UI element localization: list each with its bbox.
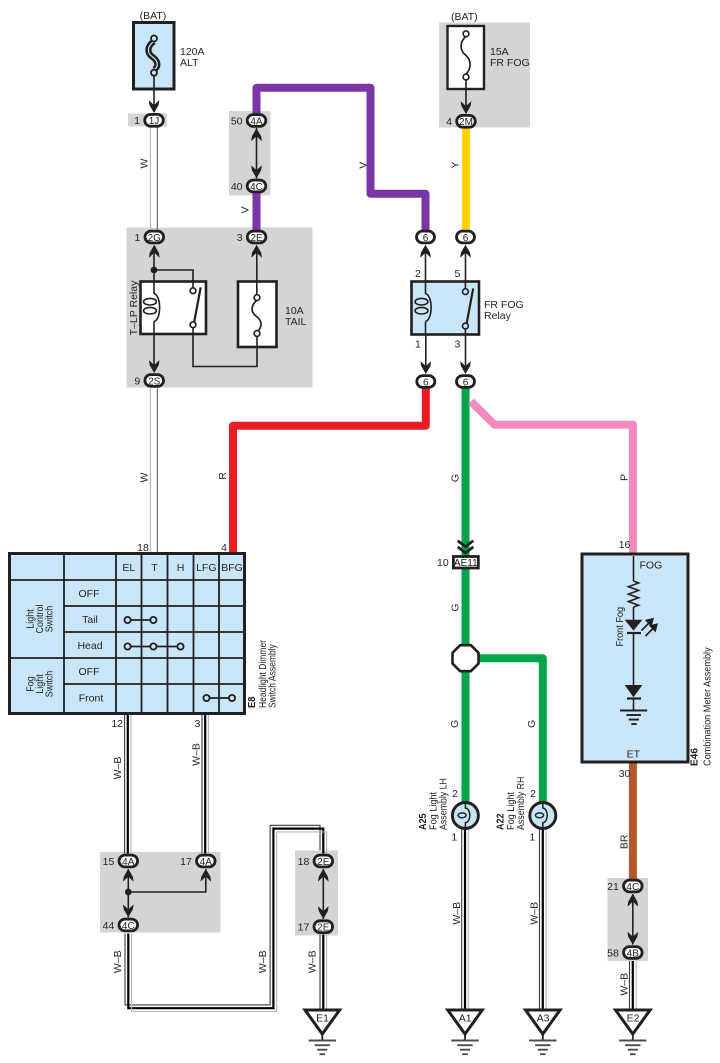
arrow into connector 6 (pin 1) [421,361,432,374]
svg-text:Assembly LH: Assembly LH [438,778,450,830]
arrow into 15-4A [123,869,134,882]
wire from 2E down to TAIL fuse top [256,250,258,297]
svg-text:3: 3 [454,339,460,351]
gray box behind 15A FR FOG fuse [439,23,530,128]
svg-text:5: 5 [454,268,460,280]
connector 9-2S [145,375,164,388]
ground A1 [448,1010,483,1054]
rotated label E46 Combination Meter Assembly [689,647,713,766]
svg-text:4C: 4C [626,882,639,893]
svg-text:30: 30 [619,768,631,780]
wire P (pink) from relay pin 3 connector to E46 pin 16 [471,402,633,555]
svg-text:10: 10 [437,557,449,569]
LED front fog indicator [625,620,643,631]
connector 50-4A [247,115,266,128]
T-LP relay [141,282,207,335]
arrow pair between 4A and 4C [256,128,258,179]
svg-text:E1: E1 [316,1013,329,1025]
svg-text:Front Fog: Front Fog [614,607,626,647]
svg-text:3: 3 [237,232,243,244]
svg-text:Switch Assembly: Switch Assembly [267,644,279,708]
arrow into 17-4A [201,869,212,882]
arrow into 17-2E [318,906,329,919]
svg-text:12: 12 [111,718,123,730]
wire from connector 6 down to FR FOG relay pin 2 [425,250,427,292]
arrow into connector 6 (pin 3) [460,361,471,374]
svg-text:4: 4 [446,116,452,128]
svg-text:T: T [151,562,158,574]
switch contacts Tail row [125,617,157,623]
arrow into 18-2E [318,869,329,882]
rotated label Light Control Switch [25,604,56,633]
gray box behind connectors 21-4C / 58-4B [608,878,649,961]
connector 10-AE11 [453,557,478,570]
gray box behind connectors 18-2E / 17-2E [295,851,338,936]
fog light assembly LH bulb [452,803,478,829]
svg-text:W–B: W–B [190,743,202,766]
svg-text:W–B: W–B [306,950,318,973]
svg-text:Y: Y [450,161,462,168]
switch contacts Front row [203,695,235,701]
connector 4-2M [457,115,476,128]
svg-text:R: R [217,472,229,480]
svg-text:(BAT): (BAT) [140,10,167,22]
wire [633,607,635,620]
svg-text:50: 50 [231,115,243,127]
wire from T-LP coil down to 2S [153,320,155,368]
svg-text:E8: E8 [246,696,258,708]
connector 44-4C [119,919,138,932]
svg-text:4C: 4C [122,921,135,932]
svg-text:FR FOG: FR FOG [490,57,530,69]
connector 17-4A [197,855,216,868]
svg-text:1: 1 [529,832,535,844]
svg-text:AE11: AE11 [454,558,478,569]
wire between 15-4A junction and 17-4A / 44-4C [127,869,129,917]
wire R (red) from relay pin 1 connector to E8 pin 4 [233,382,426,555]
svg-text:LFG: LFG [196,562,216,574]
wire W-B from E8 pin 3 down to 17-4A [202,714,208,854]
svg-text:G: G [450,474,462,482]
svg-text:OFF: OFF [79,666,100,678]
wire W-B from E8 pin 12 down to 15-4A [125,714,131,854]
wire V (violet) from 4C down to 2E [253,193,261,231]
svg-text:G: G [526,720,538,728]
svg-text:44: 44 [103,920,115,932]
junction node dot [151,267,158,274]
svg-text:4A: 4A [200,857,213,868]
rotated label E8 Headlight Dimmer Switch Assembly [246,639,278,708]
FR FOG relay [412,282,480,335]
svg-text:W: W [138,472,150,482]
svg-text:Front: Front [79,693,104,705]
gray box behind connectors 4A/4C (instrument panel junction) [229,111,271,196]
svg-text:6: 6 [463,377,469,388]
svg-text:FOG: FOG [640,560,663,572]
internal wire pin16 to resistor [633,556,635,581]
connector 18-2E [314,855,333,868]
arrow into 2S [149,360,160,373]
rotated label A25 Fog Light Assembly LH [417,778,450,830]
wire from FR FOG fuse to 2M [465,80,467,113]
svg-text:V: V [358,162,370,169]
connector 1-2G [145,231,164,244]
svg-text:2E: 2E [317,857,330,868]
connector 17-2E [314,921,333,934]
svg-text:ET: ET [627,748,641,760]
wire BR (brown) from E46 pin 30 down to 21-4C [629,762,637,880]
svg-text:4B: 4B [627,948,640,959]
svg-text:Assembly RH: Assembly RH [516,777,528,830]
svg-text:W–B: W–B [619,973,631,996]
svg-text:P: P [619,474,631,481]
svg-text:Combination Meter Assembly: Combination Meter Assembly [702,647,714,766]
svg-text:6: 6 [463,233,469,244]
svg-text:16: 16 [619,539,631,551]
svg-text:2: 2 [415,268,421,280]
E8 headlight dimmer switch assembly table [10,554,245,714]
wire W (white) from 2S down to E8 pin 18 [150,389,157,555]
svg-text:OFF: OFF [79,588,100,600]
wire from FR FOG relay pin 1 to connector 6 [425,318,427,369]
ground E2 [616,1010,651,1054]
svg-text:4A: 4A [122,857,135,868]
fuse 10A TAIL [238,282,277,348]
svg-text:17: 17 [180,856,192,868]
connector 58-4B [624,947,643,960]
svg-text:(BAT): (BAT) [451,11,478,23]
internal ground symbol [620,711,647,725]
svg-text:Relay: Relay [484,310,512,322]
svg-text:2: 2 [530,788,536,800]
svg-text:1: 1 [134,115,140,127]
svg-text:17: 17 [298,922,310,934]
svg-text:W–B: W–B [529,902,541,925]
svg-text:W: W [138,158,150,168]
connector 6 (green) [457,376,475,389]
svg-text:EL: EL [122,562,135,574]
svg-text:W–B: W–B [451,902,463,925]
connector 6 (red) [417,376,435,389]
arrow into 21-4C [628,894,639,907]
wire W (white) from 1J down to 2G [150,128,157,231]
svg-text:18: 18 [137,542,149,554]
svg-text:2M: 2M [459,117,473,128]
fuse 15A FR FOG [448,26,485,89]
svg-text:W–B: W–B [257,950,269,973]
octagon splice junction [453,645,479,671]
svg-text:BR: BR [619,834,631,849]
connector 3-2E [247,231,266,244]
rotated label Fog Light Switch [25,671,56,698]
svg-text:G: G [449,720,461,728]
wire from FR FOG relay pin 3 to connector 6 [465,328,467,369]
arrow into 44-4C [123,904,134,917]
svg-text:V: V [239,206,251,213]
wire Y (yellow) from 2M down to relay pin 5 connector [462,122,470,231]
svg-text:A3: A3 [537,1013,550,1025]
svg-text:21: 21 [607,881,619,893]
svg-text:40: 40 [231,181,243,193]
svg-text:Head: Head [77,640,102,652]
arrow into 1J [149,100,160,113]
E46 combination meter assembly [582,554,688,762]
svg-text:Switch: Switch [44,606,56,633]
svg-text:A1: A1 [459,1013,472,1025]
double chevron shield connector above AE11 [458,541,474,553]
wire from T-LP switch to TAIL fuse bottom [193,327,257,367]
connector 6 (violet) [417,231,435,244]
svg-text:H: H [177,562,185,574]
svg-text:TAIL: TAIL [285,316,307,328]
svg-text:6: 6 [423,377,429,388]
svg-text:2E: 2E [250,233,263,244]
svg-text:1: 1 [451,832,457,844]
arrow into 58-4B [628,932,639,945]
wire from ALT fuse to 1J [153,76,155,113]
svg-text:W–B: W–B [112,757,124,780]
svg-text:18: 18 [298,856,310,868]
ground A3 [526,1010,561,1054]
svg-text:9: 9 [134,375,140,387]
wire from 2G down to T-LP relay coil, junction at node [153,250,155,296]
connector 1J [145,114,164,127]
wire from connector 6 down to FR FOG relay pin 5 [465,250,467,289]
svg-text:E2: E2 [627,1013,640,1025]
wire [633,699,635,711]
svg-text:T–LP Relay: T–LP Relay [128,280,140,335]
svg-text:4A: 4A [250,116,263,127]
svg-text:3: 3 [195,718,201,730]
svg-text:6: 6 [423,233,429,244]
wire [633,633,635,685]
arrow into connector 6 (pin 2) [420,245,431,258]
ground E1 [305,1010,340,1054]
svg-text:G: G [450,603,462,611]
arrow into 2G [149,245,160,258]
svg-text:2S: 2S [148,376,161,387]
wire from junction to T-LP switch contact [154,270,193,289]
connector 6 (yellow) [457,231,475,244]
switch contacts Head row [125,643,184,649]
svg-text:Switch: Switch [44,671,56,698]
svg-text:E46: E46 [689,748,700,766]
svg-text:15: 15 [103,856,115,868]
svg-text:4: 4 [221,542,227,554]
svg-text:1J: 1J [149,116,160,127]
wire W-B from fog light LH pin 1 down to ground A1 [462,829,469,1009]
connector 15-4A [119,855,138,868]
svg-text:1: 1 [134,232,140,244]
arrow into 2E [251,245,262,258]
wire W-B from fog light RH pin 1 down to ground A3 [540,829,547,1009]
arrow into connector 6 (pin 5) [460,245,471,258]
connector 40-4C [247,180,266,193]
diode [625,685,643,697]
rotated label A22 Fog Light Assembly RH [495,777,528,830]
svg-text:ALT: ALT [180,57,199,69]
gray box behind connectors 15-4A / 17-4A / 44-4C [100,852,221,933]
fusible link 120A ALT [134,23,175,90]
svg-text:58: 58 [607,947,619,959]
wire between 18-2E and 17-2E [322,869,324,919]
wire W-B from 17-2E down to ground E1 [320,935,327,1010]
fog light assembly RH bulb [530,803,556,829]
wire G (green) from relay pin 3 connector down to fog light LH [462,382,470,803]
resistor [628,581,638,607]
svg-text:2G: 2G [148,233,162,244]
svg-text:Tail: Tail [82,614,98,626]
arrow into 2M [461,101,472,114]
svg-text:2E: 2E [317,923,330,934]
gray band behind connector 1J [128,114,167,127]
wire V (violet) from fuse block 4A up-over to FR FOG relay pin 2 [257,88,426,231]
wire W-B from 58-4B down to ground E2 [630,961,637,1009]
gray box behind T-LP relay and TAIL fuse [127,228,313,388]
connector 21-4C [624,880,643,893]
wire W-B loop from 44-4C around to 18-2E [125,825,327,1011]
svg-text:BFG: BFG [221,562,243,574]
wire between 21-4C and 58-4B [632,894,634,944]
junction node dot [125,889,132,896]
wire G (green) branch from junction to fog light RH [476,658,543,803]
svg-text:1: 1 [415,339,421,351]
svg-text:2: 2 [452,788,458,800]
svg-text:W–B: W–B [112,950,124,973]
svg-text:4C: 4C [250,182,263,193]
